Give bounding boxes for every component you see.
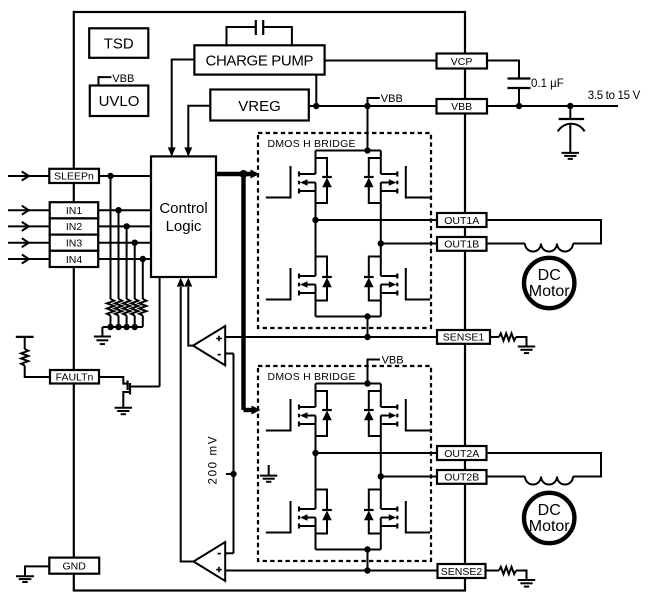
bridge1 low-right source stub — [381, 292, 398, 294]
pulldown resistor RIN1 — [115, 299, 122, 316]
VCP pin — [437, 54, 488, 69]
svg-text:OUT1B: OUT1B — [444, 239, 479, 251]
wire OUT1A — [316, 219, 438, 221]
wire to SENSE1 — [367, 317, 369, 338]
junction cap/VBB — [516, 103, 522, 109]
capacitor right lead — [263, 27, 292, 45]
DMOS transistor bridge2 high-right: gate lead — [406, 399, 431, 431]
bridge1 high-left diode cathode bar — [322, 176, 332, 178]
bridge1 low-left body arrow — [300, 281, 308, 287]
transistor channel bar — [129, 383, 131, 395]
ground (GND pin) — [16, 575, 34, 577]
bridge2 low-right source stub — [381, 525, 398, 527]
ground (open drain) — [115, 407, 133, 409]
VBB pin — [437, 99, 488, 114]
bridge1 high-left diode triangle — [322, 178, 332, 188]
wire — [142, 316, 144, 328]
junction SLEEPn pulldown — [107, 173, 113, 179]
bridge2 high-right body diode leads — [369, 391, 381, 410]
svg-text:OUT2A: OUT2A — [444, 448, 479, 460]
junction IN3 pulldown — [132, 240, 138, 246]
bridge1 high-right body diode leads — [369, 158, 381, 177]
capacitor plates — [255, 20, 257, 35]
wire: VCP to 0.1uF cap — [487, 61, 519, 79]
bridge1 low-right source lead — [380, 285, 382, 317]
UVLO block — [90, 86, 149, 117]
bridge2 low-left drain lead — [315, 453, 317, 509]
svg-text:0.1 µF: 0.1 µF — [531, 78, 564, 90]
bridge2 low-right diode triangle — [364, 511, 374, 521]
bridge1 low-right drain lead — [380, 244, 382, 277]
bulk capacitor curved plate — [558, 124, 585, 132]
arrow into control logic — [184, 278, 192, 287]
ground (SENSE2) — [518, 579, 536, 581]
wire GND to ground — [25, 566, 49, 576]
wire: IN2 to control logic — [98, 225, 151, 227]
wire: VBB supply rail — [487, 105, 618, 107]
bridge2 low-left diode cathode bar — [322, 509, 332, 511]
bridge1 high-left body diode leads — [316, 158, 328, 177]
junction OUT2B — [378, 473, 384, 479]
junction sense — [364, 313, 370, 319]
wire: IN2 pulldown drop — [126, 226, 128, 299]
DMOS transistor bridge1 low-right: gate lead — [406, 268, 431, 300]
IN3 pin — [50, 235, 98, 251]
junction bulk cap — [567, 103, 573, 109]
junction sense — [364, 546, 370, 552]
bridge1 bottom rail — [316, 316, 381, 318]
svg-text:CHARGE PUMP: CHARGE PUMP — [206, 53, 314, 70]
svg-text:OUT2B: OUT2B — [444, 472, 479, 484]
bridge2 high-left channel segments — [298, 405, 300, 410]
bridge1 high-left source lead — [315, 183, 317, 221]
bridge2 high-left drain lead — [315, 384, 317, 408]
junction VBB rail — [364, 380, 370, 386]
SENSE2 resistor — [486, 570, 500, 572]
SENSE2 line to comparator2 + — [225, 570, 437, 572]
thick bus vertical — [241, 172, 245, 410]
bridge2 low-right drain stub — [381, 508, 398, 510]
bridge1 high-left body arrow — [300, 179, 308, 185]
DMOS transistor bridge1 low-left: gate lead — [266, 268, 291, 300]
FAULTn pull-up supply bar — [16, 336, 34, 338]
thick bus: control logic to bridge1 — [216, 172, 252, 176]
bridge2 low-left diode triangle — [322, 511, 332, 521]
svg-text:VBB: VBB — [381, 93, 403, 105]
IN4 pin — [50, 251, 98, 267]
wire: VREG to control logic — [188, 106, 210, 155]
OUT1B pin — [437, 237, 487, 251]
svg-text:IN1: IN1 — [66, 205, 83, 217]
bridge2 top rail — [316, 383, 381, 385]
bridge2 high-right body arrow — [389, 412, 397, 418]
svg-text:SENSE2: SENSE2 — [441, 566, 483, 578]
IN2 pin — [50, 218, 98, 234]
FAULTn pin — [50, 370, 99, 384]
wire: IN4 pulldown drop — [142, 259, 144, 299]
junction rail — [115, 324, 121, 330]
capacitor above charge pump: left lead — [227, 27, 256, 45]
bridge2 low-left source lead — [315, 518, 317, 550]
svg-text:SENSE1: SENSE1 — [443, 332, 485, 344]
bridge2 low-left channel segments — [298, 507, 300, 512]
wire: charge pump to VCP — [325, 60, 437, 62]
pulldown resistor RSLEEPn — [107, 299, 114, 316]
bridge2 low-left source stub — [299, 525, 316, 527]
pulldown resistor RIN3 — [131, 299, 138, 316]
wire — [118, 316, 120, 328]
SLEEPn pin — [49, 169, 99, 183]
bridge2 high-left body arrow — [300, 412, 308, 418]
svg-text:VBB: VBB — [112, 73, 134, 85]
junction SENSE1 line — [364, 334, 370, 340]
DMOS transistor bridge1 high-right: gate lead — [406, 166, 431, 198]
wire: IN3 to control logic — [98, 242, 151, 244]
motor1 loop from OUT1A — [487, 220, 602, 244]
bridge1 low-left drain lead — [315, 220, 317, 276]
svg-text:Motor: Motor — [529, 283, 571, 300]
IN1 input arrow — [8, 209, 50, 211]
svg-text:FAULTn: FAULTn — [56, 372, 94, 384]
wire: VBB tag to bridge 2 — [368, 360, 380, 384]
bridge1 high-right channel segments — [396, 172, 398, 177]
wire: IN4 to control logic — [98, 258, 151, 260]
bridge1 low-right diode triangle — [364, 278, 374, 288]
svg-text:IN4: IN4 — [66, 254, 83, 266]
bridge1 low-left diode triangle — [322, 278, 332, 288]
svg-text:VREG: VREG — [238, 98, 281, 115]
ground — [562, 152, 580, 154]
bridge1 high-left channel segments — [298, 172, 300, 177]
bridge1 low-right drain stub — [381, 275, 398, 277]
svg-text:SLEEPn: SLEEPn — [54, 171, 94, 183]
svg-text:GND: GND — [63, 560, 87, 572]
svg-text:UVLO: UVLO — [99, 93, 140, 110]
SENSE2 pin — [438, 564, 486, 578]
bridge2 high-left drain stub — [299, 406, 316, 408]
OUT2A pin — [437, 446, 487, 460]
bulk capacitor bottom lead — [569, 124, 571, 153]
junction OUT2A — [312, 450, 318, 456]
svg-text:3.5 to 15 V: 3.5 to 15 V — [588, 90, 641, 102]
svg-text:Logic: Logic — [166, 218, 202, 235]
bridge1 high-left source stub — [299, 190, 316, 192]
bridge2 high-left source lead — [315, 416, 317, 454]
SENSE1 pin — [437, 330, 490, 344]
svg-text:DMOS H BRIDGE: DMOS H BRIDGE — [268, 371, 356, 383]
wire: IN1 pulldown drop — [118, 210, 120, 299]
junction OUT1B — [378, 240, 384, 246]
junction rail — [132, 324, 138, 330]
comparator1 - input jog — [225, 353, 233, 355]
bulk capacitor: top lead — [569, 106, 571, 119]
bridge1 high-left drain lead — [315, 151, 317, 175]
UVLO VBB tag — [99, 77, 112, 85]
200 mV reference line — [233, 354, 235, 554]
svg-text:Motor: Motor — [529, 518, 571, 535]
junction VBB to bridge1 — [364, 103, 370, 109]
bridge1 low-left source lead — [315, 285, 317, 317]
open-drain transistor gate bar — [126, 381, 128, 391]
bridge1 high-right drain stub — [381, 173, 398, 175]
junction IN2 pulldown — [123, 223, 129, 229]
bridge1 high-right drain lead — [380, 151, 382, 175]
DC motor 1 — [524, 258, 574, 308]
bridge2 low-right body diode leads — [369, 490, 381, 511]
wire: SLEEPn pulldown drop — [110, 176, 112, 299]
svg-text:VCP: VCP — [451, 56, 473, 68]
bridge1 low-left diode cathode bar — [322, 276, 332, 278]
wire to FAULTn — [25, 366, 50, 378]
bridge1 low-left source stub — [299, 292, 316, 294]
DC motor 2 — [524, 493, 574, 543]
arrow into bridge 2 — [252, 406, 261, 415]
wire: SLEEPn to control logic — [99, 175, 151, 177]
svg-text:TSD: TSD — [104, 36, 134, 53]
wire: charge pump to control logic — [172, 60, 195, 156]
wire — [134, 316, 136, 328]
comparator1 output wire — [188, 287, 193, 346]
CHARGE PUMP block — [194, 45, 324, 74]
IC boundary — [74, 12, 465, 591]
bridge2 high-right diode cathode bar — [364, 409, 374, 411]
bridge2 low-right channel segments — [396, 507, 398, 512]
motor2 loop from OUT2A — [487, 453, 602, 477]
bridge1 high-right diode triangle — [364, 178, 374, 188]
bridge2 low-left body arrow — [300, 514, 308, 520]
DMOS transistor bridge1 high-left: gate lead — [266, 166, 291, 198]
inductor coil motor1 — [525, 244, 573, 252]
wire OUT2B — [381, 476, 437, 478]
junction IN4 pulldown — [140, 256, 146, 262]
bridge1 low-left body diode leads — [316, 257, 328, 278]
wire: IN1 to control logic — [98, 209, 151, 211]
svg-text:DMOS H BRIDGE: DMOS H BRIDGE — [268, 138, 356, 150]
bridge1 dashed box — [258, 133, 431, 328]
thick bus junction — [240, 170, 248, 178]
bridge2 dashed box — [258, 366, 431, 561]
bridge2 high-left diode triangle — [322, 411, 332, 421]
arrow into control logic — [184, 147, 192, 156]
bridge1 high-right body arrow — [389, 179, 397, 185]
arrow into bridge 1 — [251, 170, 260, 179]
bulk capacitor top plate — [559, 118, 585, 120]
pulldown resistor RIN4 — [139, 299, 146, 316]
bridge1 top rail — [316, 150, 381, 152]
bridge2 high-right drain stub — [381, 406, 398, 408]
arrow into control logic — [177, 278, 185, 287]
svg-text:IN2: IN2 — [66, 221, 83, 233]
svg-text:VBB: VBB — [451, 101, 472, 113]
ground (input pulldowns) — [94, 336, 111, 338]
wire: VREG output VBB net — [309, 105, 437, 107]
wire rail to ground — [101, 327, 103, 337]
200 mV tick — [226, 473, 234, 475]
junction rail — [107, 324, 113, 330]
bridge2 high-right source stub — [381, 423, 398, 425]
bridge2 low-left body diode leads — [316, 490, 328, 511]
bridge1 low-right diode cathode bar — [364, 276, 374, 278]
bridge1 low-right body arrow — [389, 281, 397, 287]
bridge2 high-right drain lead — [380, 384, 382, 408]
svg-text:200 mV: 200 mV — [208, 436, 220, 484]
comparator2 output wire — [181, 287, 194, 562]
bridge1 low-left channel segments — [298, 274, 300, 279]
ground (reference) — [268, 465, 270, 476]
wire — [110, 316, 112, 328]
arrow into control logic — [168, 147, 176, 156]
bridge1 high-right source stub — [381, 190, 398, 192]
OUT1A pin — [437, 213, 487, 227]
svg-text:IN3: IN3 — [66, 238, 83, 250]
wire OUT1B — [381, 243, 437, 245]
GND pin — [49, 558, 99, 574]
inductor coil motor2 — [525, 477, 573, 485]
wire — [24, 337, 26, 349]
DMOS transistor bridge2 low-left: gate lead — [266, 501, 291, 533]
wire: control logic to drain — [159, 277, 161, 387]
pull-up resistor — [21, 349, 28, 366]
IN2 input arrow — [8, 225, 50, 227]
bridge2 high-right source lead — [380, 416, 382, 477]
bridge1 high-right source lead — [380, 183, 382, 244]
junction SENSE2 line — [364, 567, 370, 573]
bridge2 high-right diode triangle — [364, 411, 374, 421]
comparator U2 — [194, 542, 226, 581]
svg-text:DC: DC — [538, 502, 561, 519]
pulldown common rail — [102, 326, 142, 328]
bridge2 low-right drain lead — [380, 477, 382, 510]
bridge2 low-right diode cathode bar — [364, 509, 374, 511]
pulldown resistor RIN2 — [123, 299, 130, 316]
wire OUT1B to coil — [487, 243, 526, 245]
junction VBB rail — [364, 147, 370, 153]
junction IN1 pulldown — [115, 207, 121, 213]
SENSE1 resistor — [490, 336, 499, 338]
DMOS transistor bridge2 low-right: gate lead — [406, 501, 431, 533]
IN1 pin — [50, 202, 98, 218]
bridge2 high-right channel segments — [396, 405, 398, 410]
wire: IN3 pulldown drop — [134, 243, 136, 299]
wire — [126, 316, 128, 328]
Control Logic block — [151, 156, 216, 277]
DMOS transistor bridge2 high-left: gate lead — [266, 399, 291, 431]
bridge1 high-right diode cathode bar — [364, 176, 374, 178]
IN4 input arrow — [8, 258, 50, 260]
VREG block — [210, 90, 308, 121]
0.1uF cap bottom lead — [518, 88, 520, 106]
bridge2 bottom rail — [316, 549, 381, 551]
junction 200 mV — [230, 471, 236, 477]
bridge2 high-left diode cathode bar — [322, 409, 332, 411]
wire: VBB down to bridge 1 — [367, 106, 369, 151]
OUT2B pin — [437, 470, 487, 484]
wire to SENSE2 — [367, 550, 369, 571]
thick bus to bridge 2 — [244, 408, 253, 412]
bridge1 high-left drain stub — [299, 173, 316, 175]
junction charge pump/VBB — [313, 103, 319, 109]
0.1uF capacitor plates — [508, 77, 531, 79]
ground (SENSE1) — [518, 346, 536, 348]
IN3 input arrow — [8, 242, 50, 244]
comparator U1 — [193, 326, 225, 365]
source wire — [123, 392, 129, 408]
SENSE1 line to comparator1 + — [225, 336, 437, 338]
svg-text:OUT1A: OUT1A — [444, 215, 479, 227]
wire: FAULTn to open-drain gate — [99, 377, 127, 384]
bridge1 low-right body diode leads — [369, 257, 381, 278]
drain wire to control logic — [130, 386, 160, 388]
wire OUT2A — [316, 452, 438, 454]
svg-text:Control: Control — [159, 200, 207, 217]
wire OUT2B to coil — [487, 476, 526, 478]
junction rail — [123, 324, 129, 330]
bridge2 low-right body arrow — [389, 514, 397, 520]
bridge1 low-right channel segments — [396, 274, 398, 279]
bridge2 low-right source lead — [380, 518, 382, 550]
VBB tag near VREG — [368, 98, 380, 106]
TSD block — [89, 28, 148, 58]
bridge2 high-left body diode leads — [316, 391, 328, 410]
bridge1 low-left drain stub — [299, 275, 316, 277]
wire: charge pump bottom to VBB line — [315, 75, 317, 106]
junction OUT1A — [312, 217, 318, 223]
bridge2 high-left source stub — [299, 423, 316, 425]
svg-text:VBB: VBB — [382, 355, 404, 367]
bridge2 low-left drain stub — [299, 508, 316, 510]
SLEEPn input arrow — [8, 175, 49, 177]
svg-text:DC: DC — [538, 267, 561, 284]
comparator2 - input jog — [225, 552, 233, 554]
